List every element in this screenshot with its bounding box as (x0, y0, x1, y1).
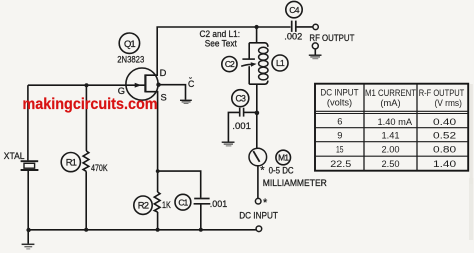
svg-text:1.40 mA: 1.40 mA (377, 117, 412, 127)
svg-text:C4: C4 (289, 5, 299, 15)
svg-text:1.41: 1.41 (381, 131, 399, 141)
svg-text:2.00: 2.00 (381, 145, 399, 155)
svg-text:makingcircuits.com: makingcircuits.com (23, 96, 158, 113)
svg-text:22.5: 22.5 (330, 159, 351, 169)
svg-text:DC INPUT: DC INPUT (320, 87, 358, 97)
svg-text:0.40: 0.40 (433, 117, 456, 127)
svg-text:2N3823: 2N3823 (117, 54, 144, 64)
svg-text:0.52: 0.52 (433, 131, 456, 141)
svg-text:R2: R2 (138, 201, 149, 212)
svg-text:.001: .001 (232, 121, 251, 132)
svg-text:0.80: 0.80 (433, 145, 456, 155)
svg-text:M1: M1 (278, 153, 289, 163)
svg-text:15: 15 (336, 145, 344, 155)
svg-text:M1 CURRENT: M1 CURRENT (365, 88, 416, 98)
svg-text:C2 and L1:: C2 and L1: (200, 29, 241, 39)
svg-text:6: 6 (337, 117, 342, 127)
svg-text:R-F OUTPUT: R-F OUTPUT (419, 88, 465, 98)
svg-text:(mA): (mA) (380, 98, 400, 108)
svg-text:1.40: 1.40 (433, 159, 456, 169)
svg-text:RF OUTPUT: RF OUTPUT (309, 32, 354, 43)
svg-text:XTAL: XTAL (4, 151, 25, 161)
svg-text:470K: 470K (91, 163, 108, 173)
svg-text:C2: C2 (225, 59, 235, 69)
svg-text:DC INPUT: DC INPUT (239, 209, 278, 220)
svg-text:G: G (118, 86, 125, 96)
svg-text:9: 9 (337, 130, 342, 140)
svg-text:.002: .002 (284, 32, 302, 42)
svg-text:˘: ˘ (188, 75, 192, 85)
svg-text:Q1: Q1 (124, 39, 135, 50)
svg-text:R1: R1 (66, 158, 77, 169)
svg-text:*: * (260, 165, 265, 177)
svg-text:1K: 1K (162, 200, 171, 210)
svg-text:S: S (161, 92, 167, 102)
svg-text:C3: C3 (235, 93, 246, 103)
svg-text:(V rms): (V rms) (435, 98, 462, 108)
svg-text:(volts): (volts) (327, 98, 352, 108)
svg-text:*: * (263, 197, 268, 209)
svg-text:C1: C1 (178, 197, 188, 207)
svg-text:MILLIAMMETER: MILLIAMMETER (263, 177, 327, 188)
svg-text:L1: L1 (276, 58, 285, 68)
svg-text:D: D (160, 68, 167, 78)
svg-text:.001: .001 (210, 199, 228, 209)
svg-text:0-5 DC: 0-5 DC (269, 165, 294, 175)
svg-text:See Text: See Text (205, 39, 237, 49)
svg-text:2.50: 2.50 (381, 159, 399, 169)
